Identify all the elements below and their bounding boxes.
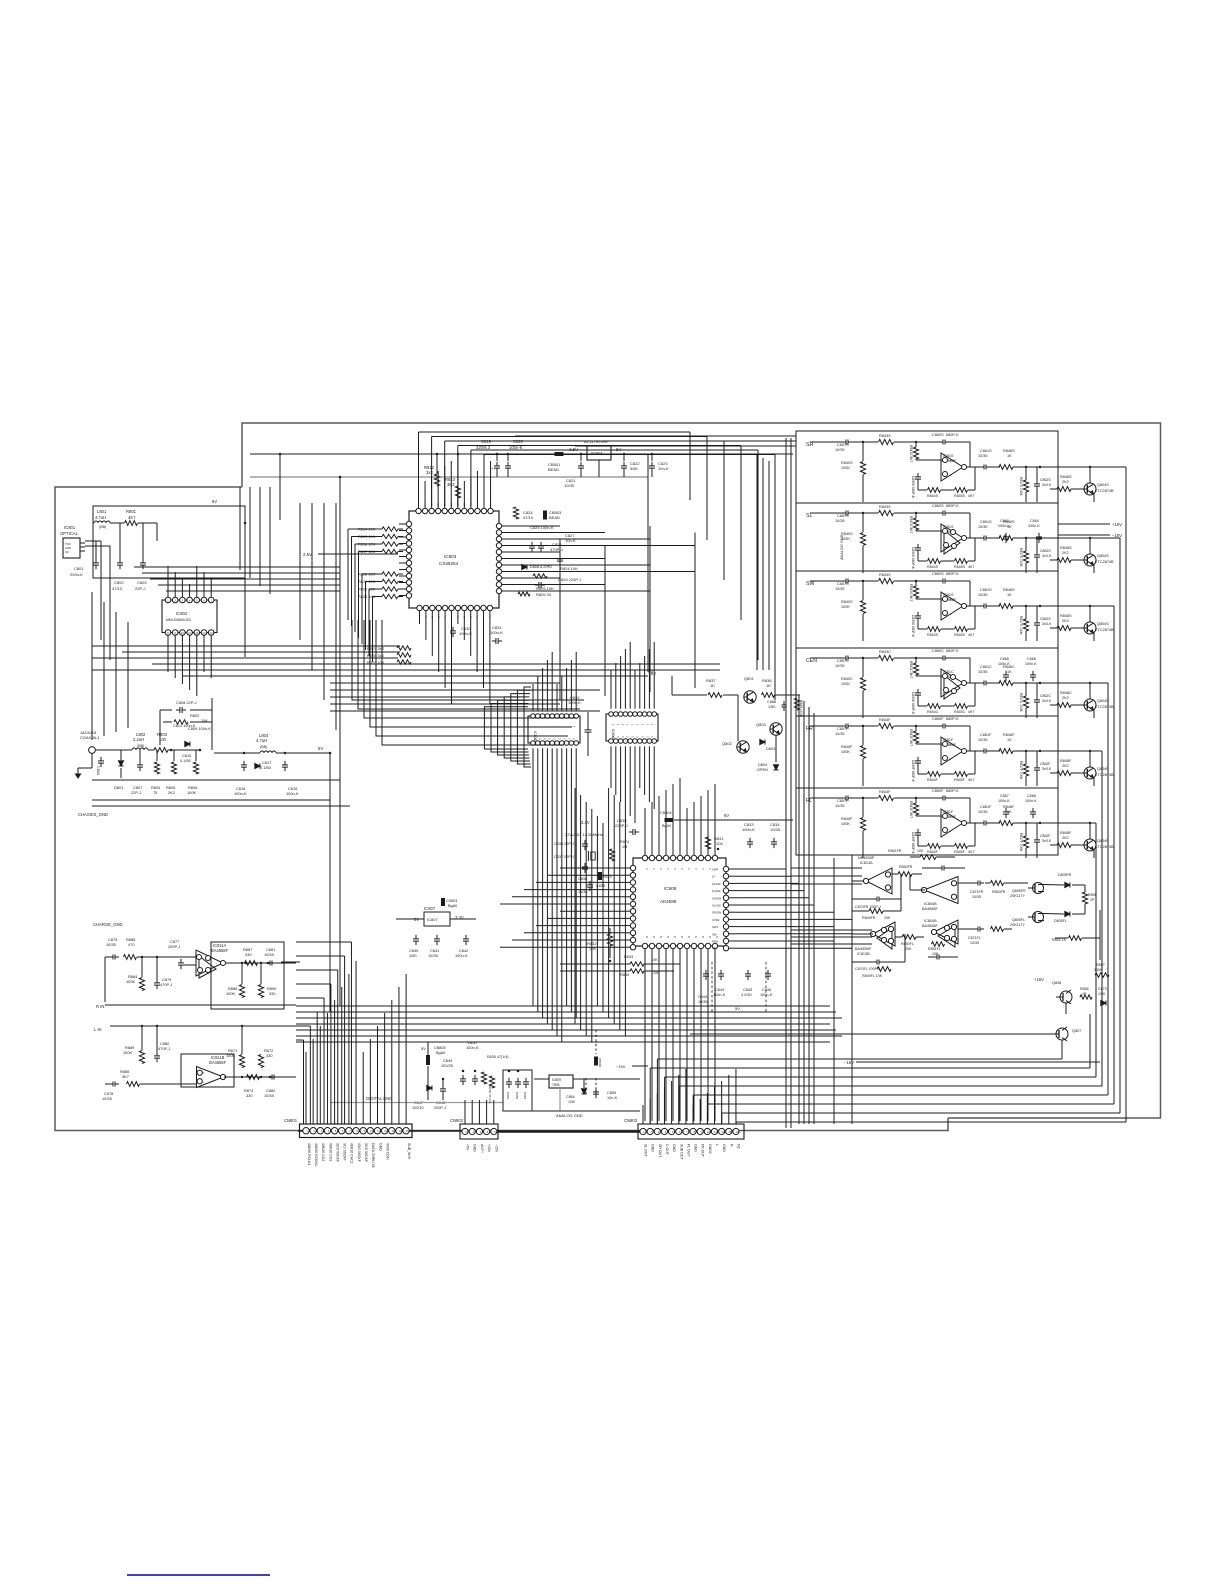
svg-text:−15V: −15V xyxy=(494,1144,498,1153)
svg-text:100K: 100K xyxy=(841,750,850,754)
svg-text:10/35: 10/35 xyxy=(978,670,988,674)
svg-text:1K: 1K xyxy=(766,683,771,688)
transistor Q802 xyxy=(737,741,749,753)
resistor R844S 4K7 xyxy=(928,559,941,564)
pin CN801-1 xyxy=(303,1128,309,1134)
pin IC802 top 7 xyxy=(208,597,214,603)
svg-text:+: + xyxy=(202,1071,205,1075)
op-amp IC802 MM1545 digital interface xyxy=(162,600,217,633)
svg-text:C870FR 100P-J: C870FR 100P-J xyxy=(855,905,881,909)
svg-text:R840C: R840C xyxy=(841,677,853,681)
svg-text:CEN: CEN xyxy=(806,658,817,664)
resistor R806 100K xyxy=(193,762,198,774)
pin IC806 bottom 6 xyxy=(633,739,638,744)
pin IC806 bottom 1 xyxy=(609,739,614,744)
svg-text:SW1: SW1 xyxy=(712,925,719,929)
svg-text:C829 220P-J: C829 220P-J xyxy=(558,577,581,582)
wire: coax gnd rail xyxy=(92,779,340,781)
svg-text:IC803: IC803 xyxy=(444,554,457,559)
capacitor C816 100n-K xyxy=(243,761,245,765)
svg-text:L801: L801 xyxy=(97,509,107,514)
pin IC803 top 7 xyxy=(455,508,460,513)
svg-text:R843F: R843F xyxy=(879,718,891,722)
pin IC803 right 9 xyxy=(496,575,501,580)
wire: long mid horizontals to left opamp blocks xyxy=(296,955,340,957)
svg-text:4K7: 4K7 xyxy=(968,633,974,637)
pin IC803 bottom 2 xyxy=(423,605,428,610)
wire: horizontals left mid xyxy=(92,799,330,801)
wire: IC809 gnd stub xyxy=(559,1088,561,1111)
pin IC803 top 2 xyxy=(422,508,427,513)
pin IC805 top 7 xyxy=(560,714,565,719)
svg-text:1/50: 1/50 xyxy=(568,1100,575,1104)
diode D804 OPEN xyxy=(773,765,778,770)
pin IC803 left 11 xyxy=(406,586,411,591)
capacitor C801 200n-K xyxy=(95,559,97,563)
capacitor C830 100n-K xyxy=(452,627,454,631)
svg-text:BA4558F: BA4558F xyxy=(209,1060,227,1065)
pin IC808 bottom 3 xyxy=(656,943,661,948)
svg-text:V: V xyxy=(645,868,649,870)
pin IC808 left 7 xyxy=(630,909,635,914)
svg-text:100/10: 100/10 xyxy=(412,1106,424,1110)
wire: +5V top power rail xyxy=(250,453,793,455)
wire: risers above DIP ICs xyxy=(532,684,534,711)
resistor R844F 4K7 xyxy=(928,772,941,777)
pin IC808 right 4 xyxy=(723,888,728,893)
svg-text:R840S: R840S xyxy=(841,600,853,604)
wire: vertical risers between bundle and IC805-806 drops xyxy=(532,775,534,1006)
pin IC808 bottom 8 xyxy=(691,943,696,948)
svg-text:1P: 1P xyxy=(1090,898,1095,902)
svg-text:10/35: 10/35 xyxy=(264,1093,274,1098)
svg-text:680P-K: 680P-K xyxy=(946,649,959,653)
svg-text:D804: D804 xyxy=(758,763,767,767)
svg-text:SR OUT: SR OUT xyxy=(658,1144,662,1158)
svg-text:R846F: R846F xyxy=(1003,805,1015,809)
svg-text:2SK117Y: 2SK117Y xyxy=(1010,894,1026,898)
svg-text:4K7: 4K7 xyxy=(968,565,974,569)
svg-text:680P-K: 680P-K xyxy=(946,717,959,721)
regulator IC809 7805 xyxy=(549,1075,573,1088)
svg-text:100K: 100K xyxy=(226,991,235,996)
pin IC803 top 10 xyxy=(475,508,480,513)
svg-text:BgA0: BgA0 xyxy=(436,1051,445,1055)
resistor R845S 4K7 xyxy=(955,559,968,564)
wire: C808 loop xyxy=(160,709,172,711)
pin IC808 bottom 2 xyxy=(649,943,654,948)
svg-text:C863: C863 xyxy=(1000,519,1009,523)
resistor R845S 4K7 xyxy=(955,488,968,493)
svg-text:R847S 100K: R847S 100K xyxy=(1019,616,1023,635)
svg-text:GND: GND xyxy=(651,1144,655,1152)
svg-text:SW: SW xyxy=(712,932,717,936)
svg-text:100/25: 100/25 xyxy=(441,1063,453,1068)
svg-text:5V: 5V xyxy=(318,746,323,751)
pin IC808 top 11 xyxy=(712,855,717,860)
svg-text:680P-K: 680P-K xyxy=(946,504,959,508)
svg-text:C857S: C857S xyxy=(837,443,849,447)
svg-text:2.2uH: 2.2uH xyxy=(133,737,144,742)
svg-text:10/35: 10/35 xyxy=(564,483,575,488)
svg-text:C857C: C857C xyxy=(837,659,849,663)
svg-text:CN802: CN802 xyxy=(450,1118,464,1123)
svg-text:1K: 1K xyxy=(710,683,715,688)
svg-text:+16V: +16V xyxy=(1034,977,1044,982)
svg-text:R826 33: R826 33 xyxy=(536,592,552,597)
svg-text:IC808: IC808 xyxy=(664,886,677,891)
svg-text:R856: R856 xyxy=(1080,987,1089,991)
svg-text:R846S: R846S xyxy=(1003,449,1015,453)
svg-text:R845F: R845F xyxy=(954,778,966,782)
svg-text:GND: GND xyxy=(672,1144,676,1152)
pin IC803 bottom 1 xyxy=(417,605,422,610)
svg-text:R861FR: R861FR xyxy=(888,849,902,853)
pin IC802 top 6 xyxy=(201,597,207,603)
svg-text:200P-J: 200P-J xyxy=(434,1106,446,1110)
svg-text:4.7uH: 4.7uH xyxy=(95,515,106,520)
svg-text:C0803: C0803 xyxy=(446,899,457,903)
svg-text:C843: C843 xyxy=(698,995,707,999)
wire: IC803 top pin risers xyxy=(418,486,420,506)
svg-text:10/35: 10/35 xyxy=(978,593,988,597)
svg-text:Q807: Q807 xyxy=(1072,1029,1081,1033)
svg-text:470P-J: 470P-J xyxy=(550,547,563,552)
svg-text:470P-J: 470P-J xyxy=(158,1046,170,1051)
svg-text:C860S: C860S xyxy=(932,433,944,437)
svg-text:KTC2874B: KTC2874B xyxy=(1095,773,1114,777)
pin CN803-14 xyxy=(733,1128,739,1134)
wire: CEN transistor hookup xyxy=(1071,704,1084,706)
pin IC806 bottom 7 xyxy=(638,739,643,744)
svg-text:R845S: R845S xyxy=(954,633,966,637)
svg-text:R844C: R844C xyxy=(927,710,939,714)
svg-text:2K2: 2K2 xyxy=(168,790,175,795)
svg-text:R848F: R848F xyxy=(1060,759,1072,763)
svg-text:Q805FR: Q805FR xyxy=(1012,889,1026,893)
pin CN803-9 xyxy=(697,1128,703,1134)
svg-text:R846S: R846S xyxy=(1003,588,1015,592)
capacitor C848 200P-J xyxy=(442,1085,444,1089)
svg-text:R857: R857 xyxy=(1096,963,1105,967)
svg-text:100n-K: 100n-K xyxy=(713,993,726,997)
svg-text:10/35: 10/35 xyxy=(835,664,845,668)
wire: left pin feed lines xyxy=(348,528,380,530)
pin CN801-5 xyxy=(331,1128,337,1134)
svg-text:6V: 6V xyxy=(651,671,656,676)
pin IC805 top 6 xyxy=(555,714,560,719)
pin IC808 right 2 xyxy=(723,874,728,879)
svg-text:4996 CON: 4996 CON xyxy=(385,1143,389,1160)
svg-text:R843C: R843C xyxy=(879,650,891,654)
pin IC805 bottom 5 xyxy=(550,741,555,746)
svg-text:C862F: C862F xyxy=(1040,762,1051,766)
wire: upper-left routing grid xyxy=(134,566,340,568)
svg-text:6V: 6V xyxy=(724,813,729,818)
svg-text:D: D xyxy=(659,936,663,938)
pin IC808 top 6 xyxy=(677,855,682,860)
svg-text:(BB): (BB) xyxy=(99,525,106,529)
svg-text:47/10: 47/10 xyxy=(112,586,123,591)
pin IC808 top 5 xyxy=(670,855,675,860)
pin IC802 bottom 3 xyxy=(180,630,186,636)
transistor Q808 xyxy=(1060,991,1072,1003)
pin IC805 top 5 xyxy=(550,714,555,719)
svg-text:C861S: C861S xyxy=(980,520,992,524)
svg-text:Q804S: Q804S xyxy=(1097,483,1109,487)
pin IC803 left 9 xyxy=(406,573,411,578)
svg-text:ANALOG GND: ANALOG GND xyxy=(556,1113,583,1118)
pin IC803 right 10 xyxy=(496,582,501,587)
ferrite bead CB804 xyxy=(665,818,674,822)
svg-text:R843S: R843S xyxy=(879,434,891,438)
svg-text:FR OUT: FR OUT xyxy=(701,1144,705,1158)
svg-text:2K2: 2K2 xyxy=(1062,480,1069,484)
pin IC803 left 2 xyxy=(406,528,411,533)
capacitor C870FR 100P-J xyxy=(873,898,877,900)
wire: L-block frame xyxy=(181,1054,234,1087)
pin IC806 bottom 4 xyxy=(623,739,628,744)
pin CN801-10 xyxy=(367,1128,373,1134)
svg-text:10K: 10K xyxy=(716,841,723,846)
svg-text:5V: 5V xyxy=(735,1006,740,1011)
svg-text:C857S: C857S xyxy=(837,514,849,518)
svg-text:R846F: R846F xyxy=(1003,733,1015,737)
svg-text:680P-K: 680P-K xyxy=(946,572,959,576)
svg-text:1/50: 1/50 xyxy=(409,953,417,958)
wire: right column outer frame xyxy=(796,431,1058,855)
svg-text:48K96 RCLK1: 48K96 RCLK1 xyxy=(307,1143,311,1165)
svg-text:C857S: C857S xyxy=(837,582,849,586)
svg-text:IC807: IC807 xyxy=(424,906,436,911)
diode D801 xyxy=(118,761,123,766)
svg-text:R841C 4K7: R841C 4K7 xyxy=(909,661,913,679)
svg-text:CB806: CB806 xyxy=(598,1058,602,1068)
wire: FL output line xyxy=(966,822,982,824)
svg-text:10/35: 10/35 xyxy=(978,525,988,529)
svg-text:SL/SW: SL/SW xyxy=(712,904,721,908)
wire: drops below DIP ICs xyxy=(532,748,534,775)
svg-text:V: V xyxy=(659,868,663,870)
svg-text:C814 100n-K: C814 100n-K xyxy=(173,724,196,728)
pin IC802 top 2 xyxy=(172,597,178,603)
svg-text:100n-K: 100n-K xyxy=(466,1045,479,1050)
pin IC803 top 8 xyxy=(462,508,467,513)
svg-text:10n-K: 10n-K xyxy=(658,466,669,471)
pin CN801-14 xyxy=(396,1128,402,1134)
svg-text:GND2: GND2 xyxy=(708,1144,712,1154)
svg-text:3CO 56CKF: 3CO 56CKF xyxy=(335,1143,339,1162)
svg-text:2SK117Y: 2SK117Y xyxy=(1010,923,1026,927)
svg-text:100K: 100K xyxy=(123,1050,132,1055)
svg-text:R841S 4K7: R841S 4K7 xyxy=(909,445,913,462)
pin IC803 left 1 xyxy=(406,521,411,526)
wire: FL feedback loop xyxy=(917,837,919,846)
wire: SL output line xyxy=(966,537,982,539)
pin IC803 bottom 5 xyxy=(442,605,447,610)
resistor R845F 4K7 xyxy=(955,844,968,849)
svg-text:BgA0: BgA0 xyxy=(662,824,671,828)
svg-text:330: 330 xyxy=(246,1093,253,1098)
pin IC803 left 8 xyxy=(406,567,411,572)
pin IC802 top 5 xyxy=(194,597,200,603)
ferrite bead FB803 xyxy=(543,511,547,520)
svg-text:R848S: R848S xyxy=(1060,475,1072,479)
pin IC808 bottom 10 xyxy=(705,943,710,948)
svg-text:C859S 680P-K: C859S 680P-K xyxy=(911,615,915,638)
svg-text:3CO 56CKF: 3CO 56CKF xyxy=(364,1143,368,1162)
pin IC808 left 12 xyxy=(630,945,635,950)
svg-text:C/SW: C/SW xyxy=(712,918,720,922)
pin IC803 bottom 6 xyxy=(449,605,454,610)
svg-text:FL OUT: FL OUT xyxy=(686,1144,690,1157)
svg-text:SL OUT: SL OUT xyxy=(644,1144,648,1157)
pin IC803 right 4 xyxy=(496,543,501,548)
pin CN801-13 xyxy=(389,1128,395,1134)
pin IC803 left 12 xyxy=(406,593,411,598)
pin IC803 left 7 xyxy=(406,560,411,565)
svg-text:10K: 10K xyxy=(884,916,891,920)
pin CN803-5 xyxy=(669,1128,675,1134)
svg-text:R845S: R845S xyxy=(954,494,966,498)
svg-text:D803: D803 xyxy=(766,747,775,751)
svg-text:KTC2874B: KTC2874B xyxy=(1095,628,1114,632)
pin IC803 right 8 xyxy=(496,569,501,574)
ferrite bead CB806 xyxy=(594,1057,598,1066)
wire: IC804B wiring xyxy=(910,889,925,891)
svg-text:10K: 10K xyxy=(917,849,924,853)
svg-text:C OUT: C OUT xyxy=(665,1144,669,1156)
pin CN802-2 xyxy=(469,1128,475,1134)
pin IC808 right 10 xyxy=(723,931,728,936)
wire: FL transistor hookup xyxy=(1071,844,1084,846)
pin IC802 bottom 7 xyxy=(208,630,214,636)
svg-text:C859F 680P-K: C859F 680P-K xyxy=(911,832,915,855)
svg-text:1/50: 1/50 xyxy=(768,705,775,709)
svg-text:IC801: IC801 xyxy=(64,525,76,530)
pin IC808 top 8 xyxy=(691,855,696,860)
pin IC806 bottom 8 xyxy=(642,739,647,744)
pin IC803 bottom 3 xyxy=(430,605,435,610)
resistor R844S 4K7 xyxy=(928,627,941,632)
wire: IC811A output xyxy=(226,962,296,964)
svg-text:AK4588: AK4588 xyxy=(660,899,677,904)
svg-text:1K: 1K xyxy=(1007,670,1012,674)
svg-text:R840S: R840S xyxy=(841,532,853,536)
wire: verticals near right column left edge xyxy=(756,455,758,670)
wire: SW transistor hookup xyxy=(1071,627,1084,629)
wire: SR output line xyxy=(966,466,982,468)
svg-text:10/35: 10/35 xyxy=(106,942,116,947)
wire: IC803-to-mid routing xyxy=(330,675,520,677)
svg-text:V: V xyxy=(666,868,670,870)
pin IC808 bottom 11 xyxy=(712,943,717,948)
svg-text:GND: GND xyxy=(694,1144,698,1152)
svg-text:10/35: 10/35 xyxy=(264,952,274,957)
svg-text:C846: C846 xyxy=(762,988,771,992)
pin CN801-8 xyxy=(353,1128,359,1134)
wire: digital gnd bus xyxy=(330,1102,503,1104)
resistor R833 10K xyxy=(630,962,644,966)
pin IC808 left 2 xyxy=(630,873,635,878)
capacitor C840 1/50 xyxy=(415,935,417,939)
wire: top long horizontals to right column xyxy=(515,435,796,437)
svg-text:C861F: C861F xyxy=(980,733,992,737)
capacitor C851 100/35 xyxy=(508,1078,510,1082)
pin IC808 left 3 xyxy=(630,880,635,885)
pin IC805 bottom 2 xyxy=(536,741,541,746)
pin IC803 left 4 xyxy=(406,541,411,546)
capacitor C803 22P-J xyxy=(142,559,144,563)
svg-text:4K7: 4K7 xyxy=(940,780,941,781)
pin IC808 top 9 xyxy=(698,855,703,860)
wire: nested route left of IC805 xyxy=(524,687,531,767)
svg-text:D808 6.2/RD: D808 6.2/RD xyxy=(530,565,552,569)
pin IC805 bottom 1 xyxy=(531,741,536,746)
pin IC808 bottom 9 xyxy=(698,943,703,948)
wire: mixer outputs to right bus xyxy=(1099,910,1101,960)
pin IC803 bottom 8 xyxy=(462,605,467,610)
svg-text:6V: 6V xyxy=(212,499,217,504)
svg-text:4K7: 4K7 xyxy=(128,515,136,520)
wire: horizontal bundle lower mid xyxy=(296,1005,830,1007)
pin IC805 top 8 xyxy=(564,714,569,719)
resistor R875 xyxy=(598,872,602,880)
wire: verticals from IC803 bottom to lower area xyxy=(419,616,421,624)
wire: mid-left horizontal bus xyxy=(92,645,398,647)
pin IC808 right 3 xyxy=(723,881,728,886)
svg-text:KTC2874B: KTC2874B xyxy=(1095,489,1114,493)
svg-text:2K2: 2K2 xyxy=(1062,836,1069,840)
svg-text:R: R xyxy=(729,1144,733,1147)
pin CN801-11 xyxy=(374,1128,380,1134)
svg-text:SCI 56CKF: SCI 56CKF xyxy=(343,1143,347,1161)
wire: dashed -15V feed xyxy=(586,1030,596,1096)
svg-text:48K96 RCKN1: 48K96 RCKN1 xyxy=(314,1143,318,1166)
svg-text:R845S: R845S xyxy=(954,565,966,569)
capacitor C842 100n-K xyxy=(465,935,467,939)
capacitor C852 100n-K xyxy=(517,1078,519,1082)
pin CN802-4 xyxy=(484,1128,490,1134)
svg-text:C844: C844 xyxy=(715,988,724,992)
pin IC805 top 3 xyxy=(540,714,545,719)
svg-text:C861F: C861F xyxy=(980,805,992,809)
pin IC805 bottom 9 xyxy=(569,741,574,746)
pin IC803 top 9 xyxy=(468,508,473,513)
wire: IC811B output xyxy=(224,1076,296,1078)
svg-text:BA4558F: BA4558F xyxy=(922,907,939,911)
svg-text:−16V: −16V xyxy=(844,1060,854,1065)
pin IC802 top 3 xyxy=(180,597,186,603)
svg-text:C852: C852 xyxy=(515,1092,519,1100)
svg-text:470: 470 xyxy=(128,942,135,947)
svg-text:R854 1K: R854 1K xyxy=(1052,938,1067,942)
diode D803 xyxy=(760,739,765,744)
svg-text:C860F: C860F xyxy=(932,789,944,793)
resistor R834 10K xyxy=(630,969,644,973)
transistor Q807 xyxy=(1056,1028,1068,1040)
resistor R804 75 xyxy=(154,762,159,774)
pin IC806 bottom 3 xyxy=(618,739,623,744)
svg-text:R840F: R840F xyxy=(841,817,853,821)
svg-text:C861S: C861S xyxy=(980,588,992,592)
wire: 6V feed vertical xyxy=(244,506,246,657)
svg-text:100K: 100K xyxy=(841,682,850,686)
pin CN803-1 xyxy=(640,1128,646,1134)
pin IC808 top 10 xyxy=(705,855,710,860)
svg-text:R843F: R843F xyxy=(879,790,891,794)
wire: SW output line xyxy=(966,605,982,607)
